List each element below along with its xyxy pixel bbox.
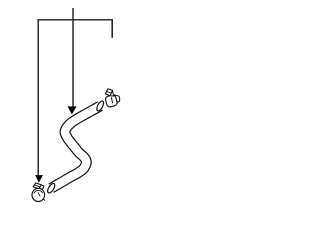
- wire: middle vertical leader: [72, 8, 74, 107]
- arrowhead left: [35, 175, 43, 183]
- wire: horizontal leader: [38, 19, 113, 21]
- hose bottom end cap: [46, 182, 56, 194]
- clamp upper-right: screw housing box: [105, 89, 113, 96]
- clamp upper-right: band ring (cylinder): [105, 94, 120, 107]
- clamp lower-left: band ring: [32, 188, 45, 201]
- arrowhead middle: [68, 106, 77, 114]
- wire: left vertical leader: [37, 19, 39, 175]
- wire: right stub leader: [111, 19, 113, 38]
- hose (S-shaped tube) outline: [51, 106, 100, 188]
- hose top end cap: [95, 100, 104, 112]
- clamp lower-left: screw housing box: [33, 183, 44, 189]
- hose inner white: [51, 106, 100, 188]
